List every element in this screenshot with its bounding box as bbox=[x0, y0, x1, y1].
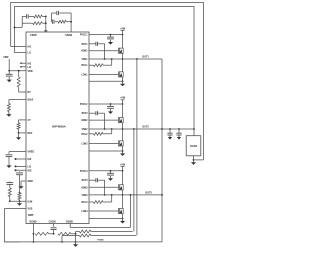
svg-text:LOAD: LOAD bbox=[190, 144, 197, 148]
svg-text:LON3: LON3 bbox=[81, 211, 88, 213]
svg-text:LON2: LON2 bbox=[81, 143, 88, 145]
wire R11 to phase bbox=[111, 59, 113, 65]
wire PVCC2 rail bbox=[89, 103, 123, 105]
wire Q4 drain bbox=[122, 129, 124, 141]
net label PGND on bottom rail bbox=[97, 240, 104, 242]
pin LI1 label bbox=[28, 52, 32, 55]
wire Q1 drain bbox=[122, 35, 124, 49]
ground for block 2 source bbox=[120, 151, 125, 156]
svg-text:OUT1: OUT1 bbox=[142, 56, 149, 59]
wire RT row bbox=[19, 87, 32, 94]
wire bootstrap to phase node bbox=[104, 180, 106, 196]
pin LI2 stub bbox=[20, 66, 31, 69]
wire N2 right rail to pin CSOP bbox=[70, 13, 72, 32]
svg-text:VSS: VSS bbox=[28, 208, 33, 211]
wire Q4 source bbox=[122, 146, 124, 152]
ground for C13 bbox=[108, 176, 113, 181]
capacitor C6 bbox=[16, 171, 23, 174]
svg-text:HON2: HON2 bbox=[81, 120, 88, 122]
wire Q2 source bbox=[122, 77, 124, 82]
svg-text:VREG: VREG bbox=[28, 151, 35, 154]
pin labels block 2 bbox=[80, 104, 88, 145]
resistor R5 (bias) bbox=[7, 104, 10, 112]
svg-text:OUT3: OUT3 bbox=[145, 192, 152, 195]
resistor R7 bbox=[18, 193, 21, 202]
pin label CSOP (top left) bbox=[30, 34, 37, 37]
resistor R22 bbox=[62, 234, 91, 237]
svg-text:VDD: VDD bbox=[3, 56, 8, 59]
pin label DGND bbox=[30, 220, 37, 223]
wire VS3 phase row bbox=[89, 194, 162, 196]
ground for C5 bbox=[6, 163, 11, 168]
svg-text:HI2: HI2 bbox=[28, 62, 32, 65]
ground for load bbox=[191, 160, 196, 165]
capacitor C13 (PVCC3 bypass) bbox=[107, 171, 114, 175]
transistor Q6 (low side) bbox=[119, 208, 124, 213]
wire CS2 sense row bbox=[89, 150, 123, 152]
ground for R5 bbox=[6, 112, 11, 117]
capacitor C1 bbox=[22, 14, 34, 18]
wire Q3 drain bbox=[122, 104, 124, 118]
svg-text:VSN2: VSN2 bbox=[81, 129, 88, 131]
pin LI3 stub bbox=[15, 165, 32, 168]
wire Q5 source bbox=[122, 190, 124, 196]
svg-text:RT: RT bbox=[28, 91, 32, 94]
svg-text:CT: CT bbox=[28, 119, 32, 122]
svg-text:HI3: HI3 bbox=[28, 158, 32, 161]
wire to RT resistor bbox=[18, 70, 20, 77]
ground for C8 bbox=[168, 135, 172, 140]
wire feedback net FB1 (outer loop: left pin around top to right side) bbox=[11, 3, 204, 160]
pin label SGND bbox=[66, 220, 73, 223]
capacitor C3 bbox=[52, 20, 58, 24]
svg-text:OUT2: OUT2 bbox=[142, 126, 149, 129]
ground for C12 bbox=[108, 109, 113, 114]
wire N1 left rail bbox=[21, 16, 23, 27]
node OUT1 junction bbox=[136, 58, 138, 60]
pin ILIM stub bbox=[10, 200, 32, 203]
wire feedback L1 (OUT3) bbox=[70, 226, 130, 228]
wire OUT1 corner down bbox=[161, 59, 164, 242]
wire L3 down to rail bbox=[61, 236, 63, 243]
ground for C4 bbox=[7, 77, 12, 82]
svg-text:HIP4086A: HIP4086A bbox=[52, 125, 67, 129]
capacitor C12 (PVCC2 bypass) bbox=[107, 104, 114, 108]
svg-text:BST2: BST2 bbox=[82, 113, 89, 115]
ground for C11 bbox=[108, 40, 113, 45]
svg-text:ILIM: ILIM bbox=[28, 200, 33, 203]
capacitor C7 bbox=[6, 181, 13, 184]
transistor Q3 (high side) bbox=[119, 118, 124, 123]
resistor R12 (gate) bbox=[89, 132, 112, 135]
capacitor C21 (bootstrap) bbox=[89, 42, 105, 46]
wire CT/REF junction bbox=[18, 129, 20, 135]
wire VS2 phase row bbox=[89, 128, 194, 130]
svg-text:BST1: BST1 bbox=[82, 44, 89, 46]
wire Q3 source bbox=[122, 123, 124, 130]
wire N2 left rail bbox=[51, 13, 53, 22]
pin label CSON (top) bbox=[65, 34, 72, 37]
wire OUT2 feedback vertical bbox=[133, 129, 135, 232]
transistor Q1 (high side) bbox=[119, 48, 124, 53]
wire LO2 gate lead bbox=[89, 142, 119, 144]
svg-text:BIAS: BIAS bbox=[28, 99, 34, 102]
svg-text:CSOP: CSOP bbox=[30, 34, 37, 37]
wire CS3 sense row bbox=[89, 218, 123, 220]
pin AGND stub bbox=[21, 180, 33, 184]
power flag +VM (block 1) bbox=[120, 27, 125, 34]
resistor R24 bbox=[58, 232, 76, 235]
wire HO2 gate lead bbox=[89, 119, 119, 121]
svg-text:VSN1: VSN1 bbox=[81, 59, 88, 61]
wire Q6 drain bbox=[122, 195, 124, 209]
wire feedback L3 (OUT1) bbox=[91, 235, 136, 237]
wire N1 right rail to pin RDEL bbox=[45, 16, 47, 33]
resistor R13 (gate) bbox=[89, 201, 112, 204]
resistor R21 bbox=[76, 230, 91, 233]
power flag +VM (block 2) bbox=[120, 97, 125, 104]
svg-text:DGND: DGND bbox=[30, 220, 37, 223]
svg-text:BST3: BST3 bbox=[82, 180, 89, 182]
wire PVCC1 rail bbox=[89, 34, 123, 36]
wire Q6 source bbox=[122, 214, 124, 220]
pin labels block 3 bbox=[80, 171, 88, 213]
pin RBIAS stub bbox=[9, 99, 34, 104]
wire C5 down bbox=[8, 157, 10, 164]
wire VS1 phase row bbox=[89, 58, 162, 60]
wire OUT2 row to load node bbox=[169, 128, 195, 130]
ground for AGND bbox=[18, 184, 23, 189]
wire HO1 gate lead bbox=[89, 50, 119, 52]
svg-text:HI1: HI1 bbox=[28, 46, 32, 49]
capacitor C5 bbox=[6, 155, 13, 157]
pin label CSS bbox=[49, 220, 56, 223]
wire HO3 gate lead bbox=[89, 186, 119, 188]
svg-text:REF: REF bbox=[28, 132, 33, 135]
wire Q2 drain bbox=[122, 59, 124, 72]
svg-text:+VM: +VM bbox=[120, 164, 125, 167]
svg-text:PVCC2: PVCC2 bbox=[80, 104, 88, 106]
ground for REF filter bbox=[16, 135, 21, 140]
capacitor C2 bbox=[52, 11, 72, 15]
ground for R7 node bbox=[17, 201, 22, 206]
wire bootstrap to phase node bbox=[104, 44, 106, 60]
wire feedback L2 (OUT2) bbox=[91, 231, 133, 233]
wire CS1 sense row bbox=[89, 80, 123, 82]
svg-text:+VM: +VM bbox=[120, 27, 125, 30]
svg-text:HON3: HON3 bbox=[81, 187, 88, 189]
resistor R3 bbox=[58, 20, 71, 23]
pin DIS stub bbox=[15, 169, 32, 172]
resistor R1 bbox=[34, 15, 46, 18]
resistor R4 (RT) bbox=[17, 77, 20, 87]
pin VREG stub bbox=[9, 151, 34, 154]
capacitor C11 (PVCC1 bypass) bbox=[107, 35, 114, 39]
resistor R2 bbox=[22, 22, 46, 25]
transistor Q2 (low side) bbox=[119, 72, 124, 77]
svg-text:RMP: RMP bbox=[28, 214, 34, 217]
svg-text:VSN3: VSN3 bbox=[81, 195, 88, 197]
pin HI2 stub bbox=[20, 62, 32, 65]
wire PVCC3 rail bbox=[89, 170, 123, 172]
resistor R8 bbox=[8, 184, 11, 196]
pin HI1 label bbox=[28, 46, 32, 49]
wire bottom rail bbox=[5, 241, 162, 243]
ground for block 3 source bbox=[120, 219, 125, 224]
wire feedback net FB2 (inner loop: left pin around top to load top) bbox=[15, 7, 195, 136]
svg-text:VDD: VDD bbox=[28, 70, 33, 73]
svg-text:GND: GND bbox=[28, 180, 34, 183]
resistor R23 bbox=[35, 232, 53, 235]
wire branch from FB2 to comp network N1 bbox=[14, 27, 23, 29]
node OUT2 junctions bbox=[133, 128, 163, 130]
wire bootstrap to phase node bbox=[104, 113, 106, 130]
ground for bottom rail bbox=[73, 242, 78, 247]
op-amp U1 HIP4086A controller IC body bbox=[26, 32, 89, 224]
wire VDD row bbox=[8, 70, 33, 73]
wire Q1 source bbox=[122, 53, 124, 60]
node OUT2 label bbox=[142, 126, 149, 129]
wire OUT1 feedback vertical bbox=[136, 59, 138, 236]
svg-text:PVCC1: PVCC1 bbox=[80, 35, 88, 37]
pin DGND stub S1 bbox=[33, 224, 35, 243]
svg-text:HON1: HON1 bbox=[81, 51, 88, 53]
wire L2 down to rail bbox=[75, 232, 77, 243]
node OUT3 junctions bbox=[130, 194, 163, 196]
power flag VDD bbox=[3, 56, 9, 71]
svg-text:CSON: CSON bbox=[49, 220, 56, 223]
node OUT1 label bbox=[142, 56, 149, 59]
pin CT stub bbox=[19, 119, 32, 123]
pin HI3 stub bbox=[15, 158, 32, 161]
svg-text:RDL2: RDL2 bbox=[82, 134, 89, 136]
load LOAD box bbox=[186, 136, 201, 156]
wire R13 to phase bbox=[111, 195, 113, 202]
capacitor C8 (snubber) bbox=[167, 129, 172, 135]
capacitor C9 (snubber) bbox=[176, 129, 181, 135]
wire LO1 gate lead bbox=[89, 73, 119, 75]
capacitor C22 (bootstrap) bbox=[89, 111, 105, 115]
wire OUT3 feedback vertical bbox=[130, 195, 132, 228]
wire R12 to phase bbox=[111, 129, 113, 134]
svg-text:RD: RD bbox=[44, 30, 48, 32]
pin label RDEL (top) bbox=[44, 30, 48, 32]
pin REF stub bbox=[19, 132, 33, 135]
svg-text:DIS: DIS bbox=[28, 169, 32, 172]
wire load bottom bbox=[193, 156, 204, 161]
svg-text:SGND: SGND bbox=[66, 220, 73, 223]
wire R8 to ILIM row bbox=[9, 197, 11, 203]
capacitor C4 (VDD bypass) bbox=[6, 71, 13, 76]
node OUT3 label bbox=[145, 192, 152, 195]
pin CSON stub S2 with capacitor C10 bbox=[51, 224, 57, 235]
svg-text:LON1: LON1 bbox=[81, 74, 88, 76]
wire LO3 gate lead bbox=[89, 210, 119, 212]
pin labels block 1 bbox=[80, 35, 88, 77]
svg-text:RDL3: RDL3 bbox=[82, 202, 89, 204]
svg-text:CSON: CSON bbox=[65, 34, 72, 37]
wire C6 down bbox=[19, 175, 21, 194]
resistor R6 bbox=[17, 123, 20, 130]
wire Q5 drain bbox=[122, 171, 124, 185]
pin SGND stub S3 bbox=[69, 224, 71, 228]
pin label RMP bbox=[28, 214, 34, 217]
transistor Q5 (high side) bbox=[119, 185, 124, 190]
pin VSS stub routed to bottom rail bbox=[5, 208, 33, 242]
ground for block 1 source bbox=[120, 81, 125, 86]
svg-text:PGND: PGND bbox=[97, 240, 104, 242]
capacitor C23 (bootstrap) bbox=[89, 178, 105, 182]
resistor R11 (gate) bbox=[89, 64, 112, 67]
svg-text:RDL1: RDL1 bbox=[82, 65, 89, 67]
power flag +VM (block 3) bbox=[120, 164, 125, 171]
ground for C9 bbox=[177, 135, 181, 140]
svg-text:+VM: +VM bbox=[120, 97, 125, 100]
svg-text:PVCC3: PVCC3 bbox=[80, 171, 88, 173]
transistor Q4 (low side) bbox=[119, 141, 124, 146]
